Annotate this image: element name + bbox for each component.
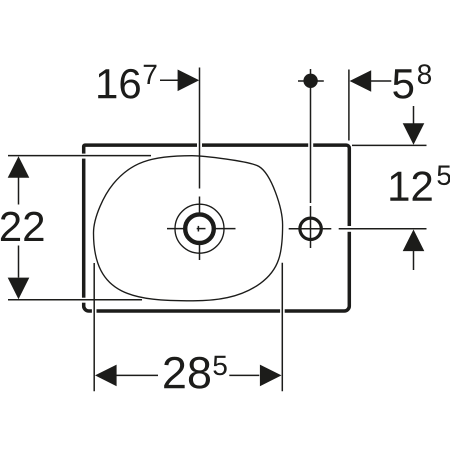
- side hole vertical centerline lower segment: [310, 206, 312, 248]
- label 16: [98, 69, 140, 99]
- dim 16.7 arrowhead: [178, 70, 200, 92]
- dim 22 bottom extension line: [8, 299, 142, 301]
- gap in top edge at side centerline crossing: [308, 143, 313, 149]
- dim 28.5 right arrowhead (points right): [260, 365, 282, 387]
- side hole vertical centerline upper segment: [310, 69, 312, 203]
- side hole horizontal centerline through hole: [289, 228, 332, 230]
- dim 22 upper arrowhead (points up): [8, 156, 30, 178]
- gap in bottom edge at 28.5-left extension crossing: [92, 308, 97, 314]
- dim 12.5 upper arrowhead (points down): [403, 123, 425, 145]
- label 5 superscript 8: [418, 64, 431, 84]
- main hole vertical centerline upper segment (16.7 reference): [199, 68, 201, 189]
- dim 16.7 arrow line: [160, 79, 178, 81]
- dim 12.5 lower arrow line: [413, 251, 415, 271]
- main tap hole ring: [185, 214, 214, 243]
- dim 28.5 left extension line: [93, 263, 95, 391]
- dim 28.5 right extension line: [281, 263, 283, 392]
- dim 28.5 left arrowhead (points left): [95, 365, 117, 387]
- label 22: [1, 212, 43, 241]
- gap in top edge at main centerline crossing: [197, 143, 202, 149]
- dim 28.5 right line: [229, 374, 259, 376]
- main hole horizontal centerline: [167, 228, 236, 230]
- dim 12.5 top extension line: [352, 144, 427, 146]
- main tap hole outer circle: [175, 204, 224, 253]
- label 12: [390, 171, 431, 200]
- dim 12.5 upper arrow line: [413, 106, 415, 125]
- label 28 superscript 5: [213, 356, 226, 376]
- dim 22 top extension line: [8, 155, 151, 157]
- label 12 superscript 5: [437, 166, 450, 186]
- label 5: [393, 69, 413, 98]
- dim 5.8 arrowhead: [350, 70, 372, 92]
- dim 5.8 arrow line: [371, 80, 391, 82]
- gap in bottom edge at 28.5-right extension crossing: [280, 308, 285, 314]
- main hole center dash vertical: [197, 226, 199, 232]
- basin outer outline: [84, 145, 350, 311]
- dim 22 lower arrowhead (points down): [8, 278, 30, 300]
- 5.8 extension line (right basin edge extended up): [348, 70, 350, 141]
- inner bowl outline: [94, 156, 283, 301]
- dim 12.5 lower arrowhead (points up): [403, 230, 425, 252]
- main hole vertical centerline lower segment: [199, 197, 201, 261]
- label 28: [164, 357, 210, 389]
- gap in left edge at 22-bottom extension crossing: [81, 298, 87, 303]
- gap in left edge at 22-top extension crossing: [81, 154, 87, 159]
- dim 28.5 left line: [116, 374, 158, 376]
- label 16 superscript 7: [144, 65, 157, 84]
- main hole center dash horizontal: [197, 228, 206, 230]
- side tap hole ring: [300, 218, 321, 239]
- dim 22 lower line: [18, 246, 20, 278]
- gap in right edge at side hole centerline crossing: [347, 226, 353, 232]
- side hole horizontal centerline extension to right (12.5 reference): [339, 228, 427, 230]
- hole position dot: [303, 74, 317, 88]
- dim 22 upper line: [18, 178, 20, 205]
- dot horizontal tick: [298, 80, 324, 82]
